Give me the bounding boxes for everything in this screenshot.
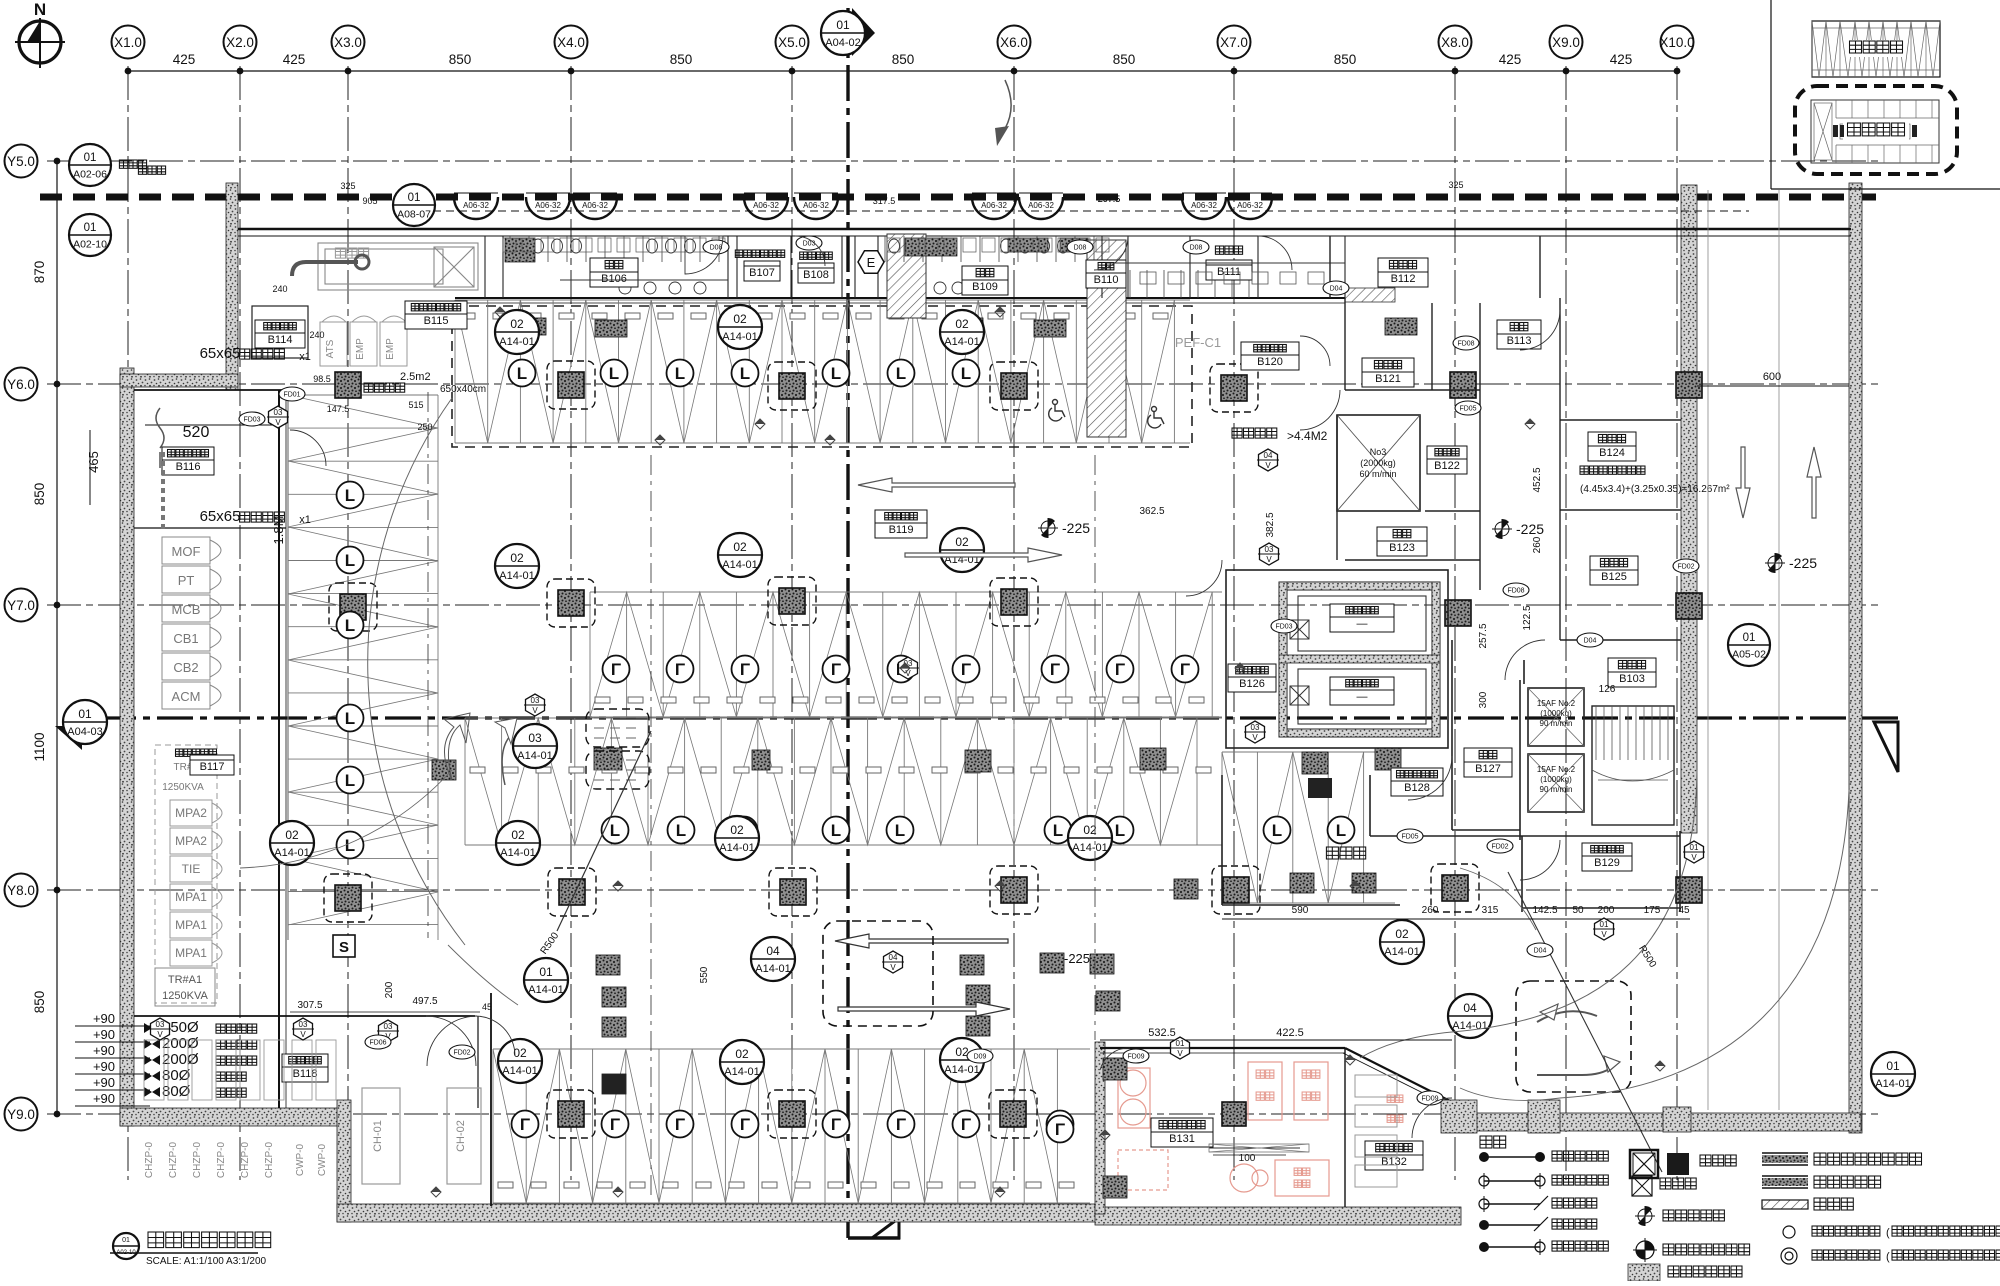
svg-text:600: 600 — [1763, 371, 1781, 383]
svg-text:04: 04 — [1463, 1001, 1477, 1015]
svg-text:X9.0: X9.0 — [1552, 35, 1580, 50]
room B132 — [1365, 1141, 1423, 1170]
svg-text:Γ: Γ — [610, 1115, 620, 1134]
svg-text:V: V — [1177, 1049, 1183, 1058]
svg-text:X8.0: X8.0 — [1441, 35, 1469, 50]
parking band mid-lower — [465, 718, 1222, 845]
svg-text:497.5: 497.5 — [412, 996, 437, 1007]
room B117 — [155, 745, 217, 1003]
room B113 — [1497, 320, 1541, 349]
svg-text:X2.0: X2.0 — [226, 35, 254, 50]
svg-text:L: L — [1336, 821, 1346, 840]
svg-text:532.5: 532.5 — [1148, 1027, 1176, 1039]
grid bubbles — [112, 26, 145, 59]
svg-text:147.5: 147.5 — [327, 404, 350, 414]
svg-text:A14-01: A14-01 — [502, 1065, 537, 1077]
svg-text:A14-01: A14-01 — [944, 1064, 979, 1076]
room B121 — [1362, 358, 1414, 387]
B131 block walls — [1100, 1047, 1345, 1049]
svg-text:V: V — [1252, 733, 1258, 742]
free-standing columns with dashed surround — [558, 372, 584, 398]
svg-text:+90: +90 — [93, 1027, 115, 1042]
svg-text:B122: B122 — [1434, 460, 1460, 472]
FD ovals — [279, 387, 305, 401]
svg-text:V: V — [300, 1030, 306, 1039]
svg-text:02: 02 — [955, 535, 969, 549]
svg-text:207.5: 207.5 — [1098, 194, 1121, 204]
svg-text:A06-32: A06-32 — [582, 201, 608, 210]
svg-text:B121: B121 — [1375, 373, 1401, 385]
svg-text:X1.0: X1.0 — [114, 35, 142, 50]
svg-text:870: 870 — [32, 261, 47, 284]
svg-text:ATS: ATS — [325, 339, 336, 358]
svg-text:L: L — [895, 821, 905, 840]
svg-text:V: V — [532, 706, 538, 715]
B119 parking space label — [875, 510, 927, 538]
svg-text:850: 850 — [1113, 52, 1136, 67]
A06-32 awning semicircles — [454, 197, 498, 219]
svg-text:No3: No3 — [1370, 447, 1387, 457]
svg-text:240: 240 — [309, 330, 324, 340]
room B125 — [1590, 556, 1638, 585]
vent shaft hatches — [887, 234, 926, 318]
svg-text:MPA1: MPA1 — [175, 946, 207, 960]
room B107 — [735, 250, 784, 257]
svg-text:250: 250 — [417, 422, 432, 432]
svg-text:MPA2: MPA2 — [175, 834, 207, 848]
parking type circles band2a — [603, 656, 630, 683]
svg-text:425: 425 — [173, 52, 196, 67]
stairs B103 — [1592, 706, 1674, 825]
svg-text:02: 02 — [733, 312, 747, 326]
svg-text:A14-01: A14-01 — [528, 984, 563, 996]
svg-text:Γ: Γ — [831, 1115, 841, 1134]
room B106 — [590, 258, 638, 287]
svg-text:B112: B112 — [1391, 273, 1416, 285]
MPA panels — [170, 800, 222, 966]
svg-text:02: 02 — [510, 551, 524, 565]
svg-text:465: 465 — [86, 451, 101, 473]
svg-text:-225: -225 — [1064, 951, 1090, 966]
svg-text:90 m/min: 90 m/min — [1540, 785, 1573, 794]
svg-text:A06-32: A06-32 — [981, 201, 1007, 210]
svg-text:L: L — [831, 821, 841, 840]
svg-text:01: 01 — [1600, 920, 1609, 929]
svg-text:A06-32: A06-32 — [803, 201, 829, 210]
svg-text:Y8.0: Y8.0 — [7, 883, 35, 898]
svg-text:01: 01 — [84, 222, 97, 234]
svg-text:—: — — [1357, 691, 1368, 703]
svg-text:850: 850 — [449, 52, 472, 67]
svg-text:Γ: Γ — [1115, 660, 1125, 679]
svg-text:Γ: Γ — [740, 660, 750, 679]
svg-text:425: 425 — [1499, 52, 1522, 67]
svg-text:01: 01 — [408, 192, 421, 204]
svg-text:01: 01 — [122, 1237, 130, 1244]
svg-text:FD05: FD05 — [1459, 406, 1476, 413]
svg-text:260: 260 — [1422, 905, 1439, 916]
svg-text:A14-01: A14-01 — [499, 336, 534, 348]
svg-text:L: L — [345, 551, 355, 570]
svg-text:45: 45 — [1678, 905, 1690, 916]
svg-text:X7.0: X7.0 — [1220, 35, 1248, 50]
svg-text:01: 01 — [84, 152, 97, 164]
svg-text:FD08: FD08 — [1457, 341, 1474, 348]
svg-text:04: 04 — [889, 953, 898, 962]
legend sump — [1632, 1176, 1652, 1196]
svg-text:01: 01 — [539, 965, 553, 979]
svg-text:B106: B106 — [601, 273, 627, 285]
room B122 — [1427, 446, 1467, 474]
svg-text:CHZP-0: CHZP-0 — [264, 1142, 275, 1179]
svg-text:550: 550 — [699, 966, 710, 983]
svg-text:+90: +90 — [93, 1075, 115, 1090]
svg-text:1100: 1100 — [32, 732, 47, 761]
svg-text:A14-01: A14-01 — [755, 963, 790, 975]
svg-text:x1: x1 — [299, 514, 311, 526]
svg-text:452.5: 452.5 — [1532, 467, 1543, 492]
svg-text:90 m/min: 90 m/min — [1540, 719, 1573, 728]
svg-text:04: 04 — [1264, 451, 1273, 460]
svg-text:CWP-0: CWP-0 — [317, 1143, 328, 1176]
svg-text:B118: B118 — [293, 1068, 318, 1080]
svg-text:02: 02 — [513, 1046, 527, 1060]
svg-text:200: 200 — [1598, 905, 1615, 916]
svg-text:B126: B126 — [1239, 678, 1265, 690]
lane dashed lines — [427, 392, 429, 938]
svg-text:A14-01: A14-01 — [944, 336, 979, 348]
svg-text:D09: D09 — [974, 1054, 987, 1061]
svg-text:L: L — [740, 364, 750, 383]
svg-text:362.5: 362.5 — [1139, 506, 1164, 517]
svg-text:200: 200 — [384, 981, 395, 998]
svg-text:A02-10: A02-10 — [73, 239, 107, 251]
svg-text:A14-01: A14-01 — [722, 331, 757, 343]
svg-text:A14-01: A14-01 — [1072, 842, 1107, 854]
svg-text:B119: B119 — [889, 524, 914, 536]
parking band top — [452, 306, 1192, 447]
svg-text:02: 02 — [735, 1047, 749, 1061]
svg-text:65x65: 65x65 — [200, 345, 241, 362]
svg-text:TR#A1: TR#A1 — [168, 974, 202, 986]
freight elevator — [1337, 415, 1420, 511]
svg-text:X10.0: X10.0 — [1659, 35, 1694, 50]
svg-text:(1000kg): (1000kg) — [1540, 775, 1572, 784]
svg-text:122.5: 122.5 — [1522, 605, 1533, 630]
trash bay band — [1222, 752, 1395, 903]
svg-text:Y7.0: Y7.0 — [7, 598, 35, 613]
hexagon symbols — [269, 406, 288, 428]
svg-text:D04: D04 — [1534, 948, 1547, 955]
svg-text:FD03: FD03 — [1275, 624, 1292, 631]
svg-text:(: ( — [1886, 1251, 1890, 1263]
svg-text:382.5: 382.5 — [1265, 512, 1276, 537]
svg-text:(: ( — [1886, 1227, 1890, 1239]
room B109 — [962, 266, 1008, 295]
svg-text:45: 45 — [482, 1002, 492, 1012]
svg-text:FD06: FD06 — [369, 1040, 386, 1047]
wall-embedded columns — [335, 372, 361, 398]
turning guide arcs — [368, 398, 465, 945]
room B126 — [1228, 664, 1276, 692]
svg-text:03: 03 — [299, 1020, 308, 1029]
svg-text:V: V — [275, 418, 281, 427]
walls around elevator core — [1222, 640, 1680, 912]
svg-text:SCALE: A1:1/100 A3:1/200: SCALE: A1:1/100 A3:1/200 — [146, 1256, 267, 1267]
legend struct level — [1638, 1209, 1652, 1223]
svg-text:B123: B123 — [1389, 542, 1415, 554]
svg-text:B128: B128 — [1404, 782, 1430, 794]
svg-text:Γ: Γ — [1055, 1120, 1065, 1139]
svg-text:850: 850 — [32, 991, 47, 1014]
svg-text:+90: +90 — [93, 1043, 115, 1058]
svg-text:01: 01 — [836, 18, 850, 32]
top wall of room band — [238, 228, 1851, 230]
svg-text:MOF: MOF — [172, 544, 201, 559]
svg-text:CB1: CB1 — [173, 631, 198, 646]
svg-text:A06-32: A06-32 — [1237, 201, 1263, 210]
svg-text:-225: -225 — [1062, 520, 1090, 536]
svg-text:Γ: Γ — [520, 1115, 530, 1134]
svg-text:Y9.0: Y9.0 — [7, 1107, 35, 1122]
svg-text:Y6.0: Y6.0 — [7, 377, 35, 392]
svg-text:02: 02 — [730, 823, 744, 837]
svg-text:L: L — [345, 486, 355, 505]
legend RC wall swatches — [1762, 1153, 1922, 1210]
svg-text:01: 01 — [78, 707, 92, 721]
small drain symbols — [495, 307, 505, 317]
svg-text:L: L — [517, 364, 527, 383]
svg-text:B132: B132 — [1381, 1156, 1407, 1168]
svg-text:905: 905 — [362, 196, 377, 206]
-225 level marks — [1041, 521, 1055, 535]
room B115 label — [405, 301, 467, 329]
svg-text:—: — — [1357, 618, 1368, 630]
svg-text:50: 50 — [1572, 905, 1584, 916]
svg-text:850: 850 — [670, 52, 693, 67]
section line A04-03 horizontal — [100, 716, 1860, 719]
svg-text:A14-01: A14-01 — [1875, 1078, 1910, 1090]
svg-text:L: L — [1053, 821, 1063, 840]
svg-text:Γ: Γ — [831, 660, 841, 679]
svg-text:V: V — [890, 963, 896, 972]
water tank room — [1226, 570, 1448, 748]
svg-text:MPA2: MPA2 — [175, 806, 207, 820]
E hexagon — [858, 251, 884, 274]
room B103 — [1608, 658, 1656, 687]
svg-text:L: L — [345, 771, 355, 790]
room B129 — [1582, 843, 1632, 871]
ref circles top-left — [69, 144, 111, 186]
svg-text:B124: B124 — [1599, 447, 1625, 459]
svg-text:B108: B108 — [803, 269, 829, 281]
toilet partitions — [485, 236, 1345, 298]
dashed maneuver boxes — [823, 921, 933, 1026]
svg-text:FD09: FD09 — [1127, 1054, 1144, 1061]
svg-text:L: L — [610, 821, 620, 840]
parking type circles band2b (L) — [602, 817, 629, 844]
svg-text:Γ: Γ — [896, 1115, 906, 1134]
room B131 fire pump room — [1118, 1062, 1329, 1196]
key plan panel — [1770, 0, 1772, 189]
top dimension line — [128, 70, 1677, 72]
svg-text:B117: B117 — [200, 761, 225, 773]
svg-text:175: 175 — [1644, 905, 1661, 916]
dim row lower right — [1222, 918, 1690, 920]
svg-text:CH-01: CH-01 — [372, 1120, 384, 1152]
svg-text:B113: B113 — [1507, 335, 1532, 347]
svg-text:03: 03 — [156, 1020, 165, 1029]
svg-text:300: 300 — [1478, 691, 1489, 708]
svg-text:L: L — [896, 364, 906, 383]
svg-text:Γ: Γ — [740, 1115, 750, 1134]
svg-text:1.8M: 1.8M — [271, 516, 286, 545]
svg-text:B110: B110 — [1094, 274, 1119, 286]
svg-text:A06-32: A06-32 — [753, 201, 779, 210]
svg-text:325: 325 — [1448, 180, 1463, 190]
grid lines horizontal — [47, 160, 1882, 162]
svg-text:CB2: CB2 — [173, 660, 198, 675]
accessible parking symbols — [1049, 400, 1065, 421]
svg-text:CHZP-0: CHZP-0 — [144, 1142, 155, 1179]
svg-text:N: N — [34, 0, 46, 19]
svg-text:A02-06: A02-06 — [73, 169, 107, 181]
drawing title — [113, 1233, 139, 1259]
svg-text:03: 03 — [384, 1022, 393, 1031]
svg-text:B116: B116 — [176, 461, 201, 473]
svg-text:307.5: 307.5 — [297, 1000, 322, 1011]
svg-text:02: 02 — [510, 317, 524, 331]
svg-text:X5.0: X5.0 — [778, 35, 806, 50]
svg-text:425: 425 — [283, 52, 306, 67]
svg-text:D04: D04 — [1584, 638, 1597, 645]
svg-text:257.5: 257.5 — [1478, 623, 1489, 648]
svg-text:98.5: 98.5 — [313, 374, 331, 384]
svg-text:65x65: 65x65 — [200, 508, 241, 525]
svg-text:Γ: Γ — [961, 660, 971, 679]
svg-text:EMP: EMP — [355, 338, 366, 360]
legend — [1480, 1136, 1506, 1148]
ATS EMP EMP — [320, 316, 407, 366]
svg-text:Γ: Γ — [675, 660, 685, 679]
svg-text:80Ø: 80Ø — [162, 1083, 191, 1100]
svg-text:x1: x1 — [299, 351, 311, 363]
svg-text:A08-07: A08-07 — [397, 209, 431, 221]
svg-text:Y5.0: Y5.0 — [7, 154, 35, 169]
parking band mid-upper — [590, 592, 1222, 717]
room B123 — [1377, 527, 1427, 556]
svg-text:850: 850 — [892, 52, 915, 67]
svg-text:03: 03 — [531, 696, 540, 705]
svg-text:MPA1: MPA1 — [175, 918, 207, 932]
svg-text:A14-01: A14-01 — [499, 570, 534, 582]
svg-text:FD02: FD02 — [453, 1050, 470, 1057]
svg-text:FD02: FD02 — [1677, 564, 1694, 571]
svg-text:>4.4M2: >4.4M2 — [1287, 429, 1328, 443]
svg-text:(1000kg): (1000kg) — [1540, 709, 1572, 718]
svg-text:A06-32: A06-32 — [463, 201, 489, 210]
svg-text:L: L — [609, 364, 619, 383]
svg-text:1250KVA: 1250KVA — [162, 990, 208, 1002]
svg-text:126: 126 — [1599, 684, 1616, 695]
svg-text:80Ø: 80Ø — [162, 1067, 191, 1084]
legend finish level — [1636, 1241, 1654, 1259]
section line A04-02 vertical center — [846, 8, 849, 1238]
svg-text:L: L — [1272, 821, 1282, 840]
svg-text:CHZP-0: CHZP-0 — [216, 1142, 227, 1179]
walls right rooms — [1330, 236, 1681, 640]
left band circles (L) — [337, 482, 364, 509]
legend toilet slab — [1628, 1264, 1660, 1281]
site boundary heavy dashed line — [40, 194, 1876, 201]
svg-text:03: 03 — [1265, 545, 1274, 554]
svg-text:PT: PT — [178, 573, 195, 588]
svg-text:315: 315 — [1482, 905, 1499, 916]
svg-text:A14-01: A14-01 — [274, 847, 309, 859]
svg-text:1250KVA: 1250KVA — [162, 782, 204, 793]
svg-text:L: L — [345, 616, 355, 635]
svg-text:B120: B120 — [1257, 356, 1283, 368]
svg-text:A05-02: A05-02 — [1732, 649, 1766, 661]
svg-text:+90: +90 — [93, 1059, 115, 1074]
top-left squiggle — [156, 408, 164, 468]
svg-text:A14-01: A14-01 — [724, 1066, 759, 1078]
svg-text:02: 02 — [285, 828, 299, 842]
svg-text:650x40cm: 650x40cm — [440, 384, 486, 395]
svg-text:CHZP-0: CHZP-0 — [240, 1142, 251, 1179]
room B110 — [1086, 260, 1126, 288]
legend manhole — [1630, 1150, 1658, 1178]
svg-text:FD05: FD05 — [1401, 834, 1418, 841]
svg-text:V: V — [1266, 555, 1272, 564]
svg-text:L: L — [345, 709, 355, 728]
elevators 15p — [1528, 688, 1584, 746]
svg-text:142.5: 142.5 — [1532, 905, 1557, 916]
svg-text:X3.0: X3.0 — [334, 35, 362, 50]
svg-text:422.5: 422.5 — [1276, 1027, 1304, 1039]
svg-text:-225: -225 — [1516, 521, 1544, 537]
svg-text:02: 02 — [955, 317, 969, 331]
svg-text:L: L — [1115, 821, 1125, 840]
room B108 — [800, 252, 833, 259]
svg-text:590: 590 — [1292, 905, 1309, 916]
svg-text:03: 03 — [1251, 723, 1260, 732]
room B112 — [1378, 258, 1428, 287]
callout circles — [495, 310, 539, 354]
svg-text:03: 03 — [274, 408, 283, 417]
svg-text:A14-01: A14-01 — [517, 750, 552, 762]
svg-text:PEF-C1: PEF-C1 — [1175, 335, 1221, 350]
svg-text:V: V — [157, 1030, 163, 1039]
svg-text:A14-01: A14-01 — [722, 559, 757, 571]
svg-text:04: 04 — [766, 944, 780, 958]
aisle arrows — [858, 478, 1015, 492]
svg-text:Γ: Γ — [675, 1115, 685, 1134]
svg-text:V: V — [1265, 461, 1271, 470]
svg-text:B127: B127 — [1475, 763, 1501, 775]
svg-text:Γ: Γ — [1180, 660, 1190, 679]
svg-text:S: S — [339, 939, 349, 956]
svg-text:520: 520 — [183, 424, 210, 441]
svg-text:D08: D08 — [1074, 245, 1087, 252]
svg-text:V: V — [1691, 853, 1697, 862]
wheel stops — [515, 318, 546, 335]
svg-text:A06-32: A06-32 — [1028, 201, 1054, 210]
svg-text:A14-01: A14-01 — [1384, 946, 1419, 958]
svg-text:01: 01 — [1743, 632, 1756, 644]
room B124 — [1588, 432, 1636, 461]
svg-text:CHZP-0: CHZP-0 — [168, 1142, 179, 1179]
